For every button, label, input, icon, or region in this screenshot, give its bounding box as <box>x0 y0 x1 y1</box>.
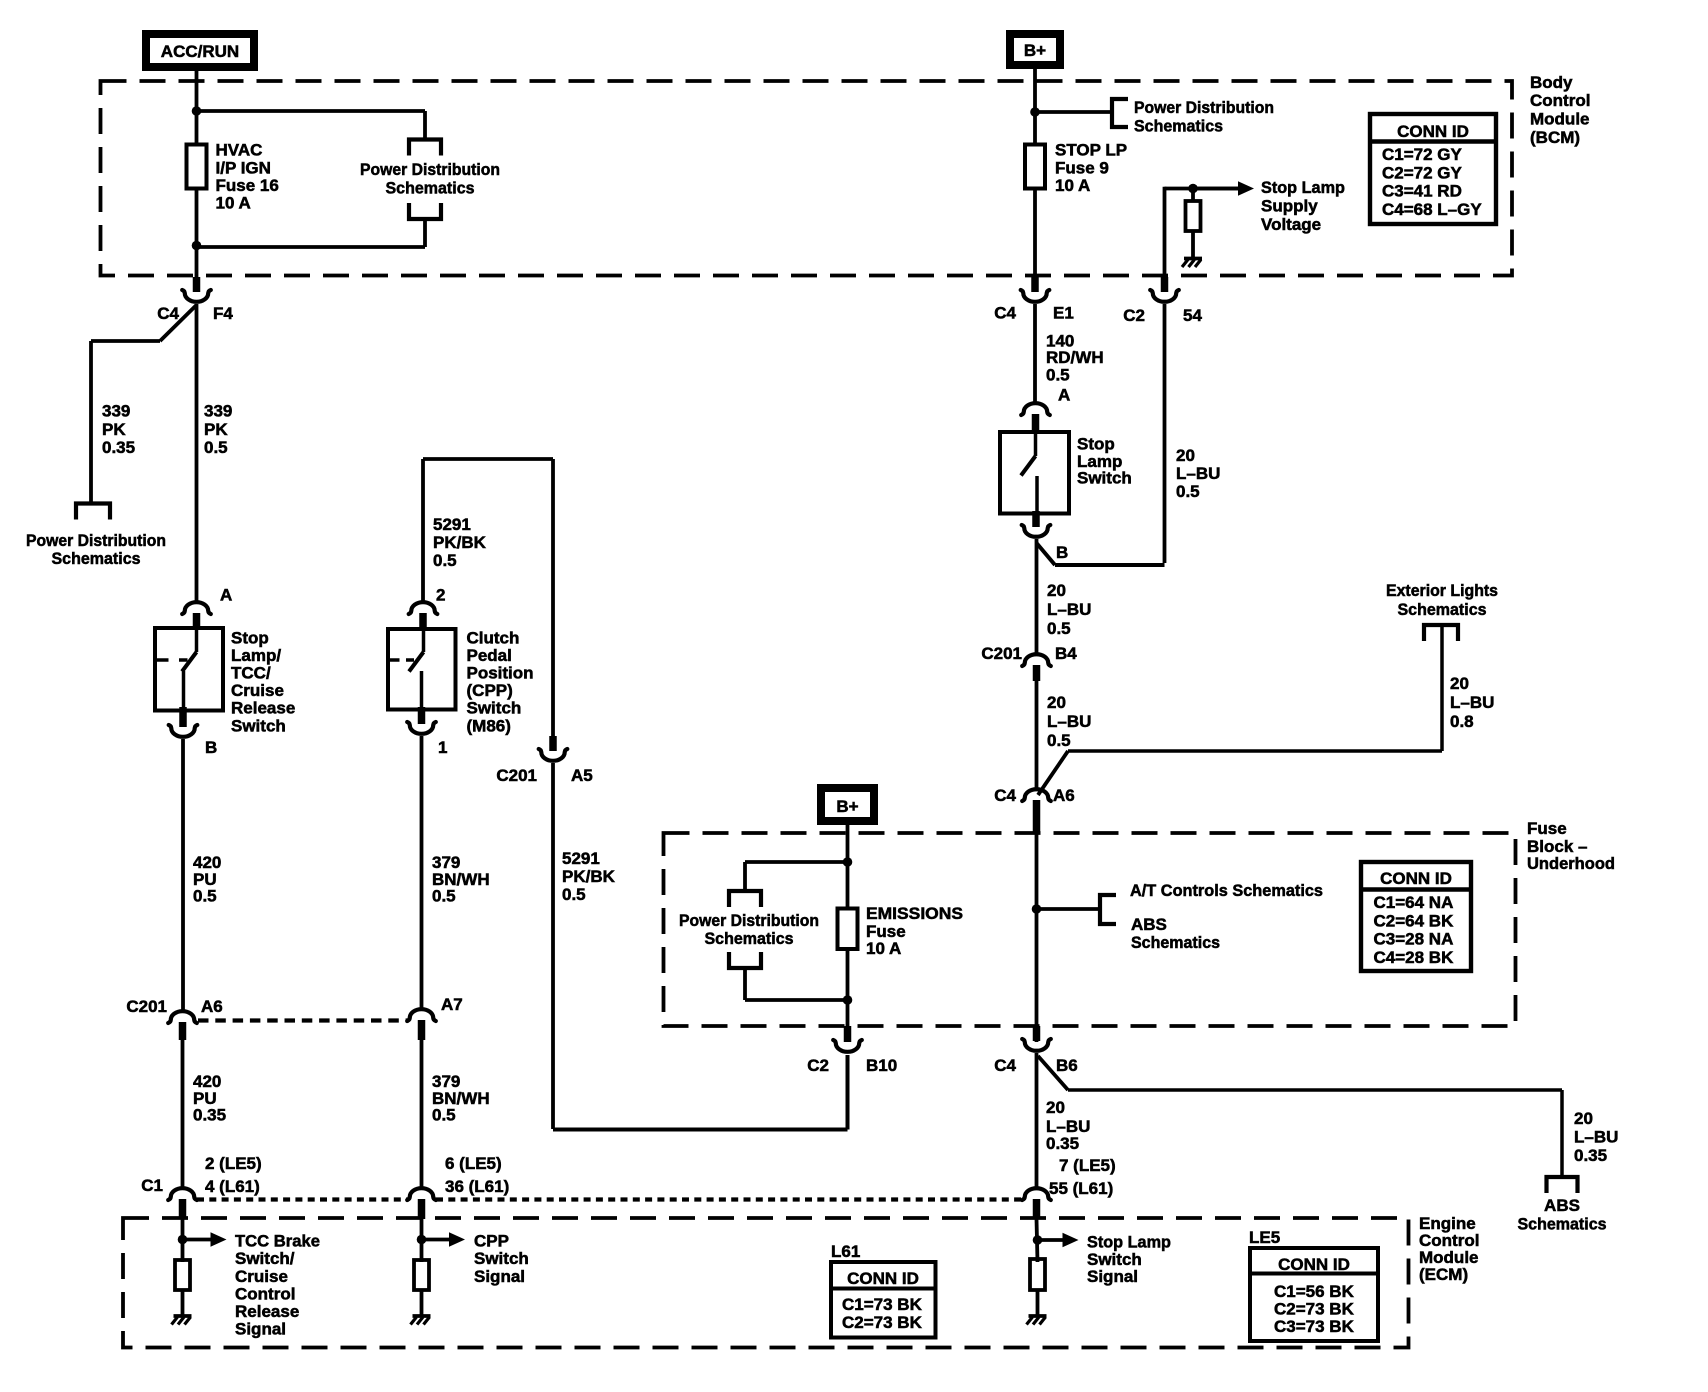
signal arrow TCC Brake Switch/Cruise Control Release Signal <box>183 1238 214 1242</box>
ECM connector face dotted line (left segment) <box>197 1197 409 1201</box>
svg-text:Control: Control <box>1530 91 1590 110</box>
wire branch to Exterior Lights Schematics <box>1038 751 1068 795</box>
connector pin B of stop lamp switch <box>1032 511 1040 527</box>
svg-text:(M86): (M86) <box>467 716 511 735</box>
svg-text:CONN ID: CONN ID <box>1397 122 1469 141</box>
svg-text:0.5: 0.5 <box>193 887 217 906</box>
svg-text:TCC/: TCC/ <box>231 664 271 683</box>
svg-text:C4: C4 <box>157 304 179 323</box>
svg-text:E1: E1 <box>1053 304 1074 323</box>
junction at A/T-ABS branch <box>1032 904 1042 914</box>
svg-text:0.8: 0.8 <box>1450 712 1474 731</box>
svg-text:Fuse 9: Fuse 9 <box>1055 158 1109 177</box>
connector C201 pin A6 <box>168 1011 197 1023</box>
svg-text:Signal: Signal <box>474 1267 525 1286</box>
svg-text:ABS: ABS <box>1544 1196 1580 1215</box>
svg-text:CPP: CPP <box>474 1232 509 1251</box>
svg-text:CONN ID: CONN ID <box>1278 1255 1350 1274</box>
svg-text:L–BU: L–BU <box>1176 464 1220 483</box>
svg-text:Power Distribution: Power Distribution <box>26 531 166 550</box>
svg-text:C1=73 BK: C1=73 BK <box>842 1295 923 1314</box>
svg-text:ACC/RUN: ACC/RUN <box>161 42 239 61</box>
connector pin 2 of CPP switch <box>409 602 438 614</box>
BCM internal resistor (stop lamp supply) <box>1191 189 1195 203</box>
power tag B+ (top right) <box>1010 34 1060 65</box>
svg-text:L–BU: L–BU <box>1450 693 1494 712</box>
svg-text:Supply: Supply <box>1261 196 1318 215</box>
svg-text:Module: Module <box>1530 110 1590 129</box>
off-page reference: Power Distribution Schematics (bottom left) <box>76 504 110 520</box>
svg-text:L–BU: L–BU <box>1047 600 1091 619</box>
svg-text:54: 54 <box>1183 306 1202 325</box>
wire B+ feed down to STOP LP fuse <box>1033 65 1037 145</box>
svg-text:Control: Control <box>235 1284 295 1303</box>
wire 5291 PK/BK 0.5 from C201 A5 down and over to fuse block C2 B10 <box>551 763 555 1129</box>
svg-text:20: 20 <box>1450 674 1469 693</box>
signal arrow Stop Lamp Switch Signal <box>1038 1238 1066 1242</box>
connector pin B of TCC switch <box>179 707 187 727</box>
wire into ECM from stop lamp pin <box>1037 1219 1038 1262</box>
svg-text:B4: B4 <box>1055 644 1077 663</box>
svg-text:Clutch: Clutch <box>467 628 520 647</box>
svg-text:STOP LP: STOP LP <box>1055 141 1127 160</box>
wire return from Power Distribution reference to EMISSIONS fuse output <box>743 968 747 1000</box>
connector C2 pin B10 (fuse block bottom) <box>844 1026 852 1042</box>
connector pin 1 of CPP switch <box>418 707 426 724</box>
svg-text:Switch: Switch <box>231 716 286 735</box>
junction at stop lamp supply resistor <box>1188 184 1198 194</box>
wire 339 PK 0.35 to Power Distribution Schematics <box>91 339 160 343</box>
power tag ACC/RUN <box>146 34 254 67</box>
svg-text:0.5: 0.5 <box>1047 731 1071 750</box>
junction at stop lamp switch signal <box>1033 1235 1043 1245</box>
svg-text:C1: C1 <box>141 1176 163 1195</box>
svg-text:Switch: Switch <box>474 1249 529 1268</box>
connector C201 pin A5 (5291 circuit) <box>549 736 557 751</box>
svg-text:Switch: Switch <box>1077 468 1132 487</box>
svg-text:5291: 5291 <box>562 849 600 868</box>
wire 20 L-BU inside fuse block from A6 to B6 <box>1035 833 1039 1042</box>
svg-text:B10: B10 <box>866 1056 897 1075</box>
svg-text:10 A: 10 A <box>216 194 251 213</box>
svg-text:36 (L61): 36 (L61) <box>445 1177 509 1196</box>
connector C4 pin B6 (fuse block bottom) <box>1033 1026 1041 1041</box>
svg-text:A6: A6 <box>201 997 223 1016</box>
svg-text:L–BU: L–BU <box>1047 712 1091 731</box>
svg-text:20: 20 <box>1176 446 1195 465</box>
wire into ECM from C1 <box>181 1219 185 1262</box>
table CONN ID (L61) <box>831 1262 936 1338</box>
svg-text:Power Distribution: Power Distribution <box>360 160 500 179</box>
wire 20 L-BU 0.5 from switch B down to C201 B4 <box>1035 539 1039 655</box>
fuse EMISSIONS Fuse 10 A <box>838 909 858 950</box>
connector ECM pin 6(LE5)/36(L61) <box>407 1188 436 1200</box>
off-page reference: Power Distribution Schematics (fuse block) <box>729 891 761 907</box>
table CONN ID (BCM) <box>1370 114 1496 224</box>
wire 379 BN/WH 0.5 from C201 A7 to ECM <box>420 1039 424 1189</box>
wire branch 20 L-BU 0.35 to ABS schematics (far right) <box>1038 1056 1068 1090</box>
svg-text:A6: A6 <box>1053 786 1075 805</box>
svg-text:Fuse: Fuse <box>1527 819 1567 838</box>
svg-text:4 (L61): 4 (L61) <box>205 1177 260 1196</box>
svg-text:Signal: Signal <box>1087 1267 1138 1286</box>
connector C4 pin E1 <box>1031 277 1039 292</box>
svg-text:Schematics: Schematics <box>1518 1215 1607 1234</box>
svg-text:10 A: 10 A <box>1055 176 1090 195</box>
connector C201 pin B4 <box>1022 654 1051 666</box>
svg-text:Underhood: Underhood <box>1527 854 1615 873</box>
switch S3 Stop Lamp Switch <box>1000 432 1069 514</box>
wire 420 PU 0.5 from TCC switch B to C201 A6 <box>181 739 185 1012</box>
svg-text:TCC Brake: TCC Brake <box>235 1232 320 1251</box>
svg-text:0.5: 0.5 <box>562 885 586 904</box>
svg-text:C1=64 NA: C1=64 NA <box>1374 893 1454 912</box>
connector pin A of stop lamp switch <box>1021 403 1050 415</box>
svg-text:PK: PK <box>102 420 126 439</box>
svg-text:20: 20 <box>1047 581 1066 600</box>
ground (ECM CPP input) <box>413 1314 431 1318</box>
svg-text:Pedal: Pedal <box>467 646 512 665</box>
fuse F9 STOP LP Fuse 9 10 A <box>1025 145 1045 189</box>
svg-text:C2=72 GY: C2=72 GY <box>1382 163 1463 182</box>
signal arrow Stop Lamp Supply Voltage <box>1193 187 1241 191</box>
wire branch to A/T Controls and ABS Schematics references <box>1037 907 1101 911</box>
svg-text:Fuse 16: Fuse 16 <box>216 176 279 195</box>
svg-text:A5: A5 <box>571 766 593 785</box>
svg-text:C2=73 BK: C2=73 BK <box>842 1313 923 1332</box>
module box: Body Control Module (BCM) dashed outline <box>101 81 1513 276</box>
junction above EMISSIONS fuse <box>843 857 853 867</box>
table CONN ID (fuse block) <box>1361 862 1471 971</box>
svg-text:C2: C2 <box>1123 306 1145 325</box>
svg-text:B6: B6 <box>1056 1056 1078 1075</box>
svg-text:(BCM): (BCM) <box>1530 128 1580 147</box>
svg-text:C2=64 BK: C2=64 BK <box>1374 911 1455 930</box>
svg-text:I/P IGN: I/P IGN <box>216 158 271 177</box>
svg-text:20: 20 <box>1046 1098 1065 1117</box>
svg-text:2: 2 <box>436 586 445 605</box>
svg-text:EMISSIONS: EMISSIONS <box>866 904 963 923</box>
wire into ECM from CPP pin <box>420 1219 424 1262</box>
wire 5291 PK/BK top run from CPP pin 2 up and over <box>421 459 425 603</box>
svg-text:L–BU: L–BU <box>1574 1128 1618 1147</box>
svg-text:10 A: 10 A <box>866 939 901 958</box>
svg-text:C201: C201 <box>126 997 167 1016</box>
connector C4 pin A6 (fuse block top) <box>1022 789 1051 801</box>
svg-text:0.35: 0.35 <box>1574 1146 1607 1165</box>
wire 140 RD/WH 0.5 from E1 to stop lamp switch pin A <box>1033 304 1037 404</box>
svg-text:CONN ID: CONN ID <box>847 1269 919 1288</box>
connector C201 pin A7 <box>407 1009 436 1021</box>
svg-text:C4=68 L–GY: C4=68 L–GY <box>1382 200 1482 219</box>
svg-text:Cruise: Cruise <box>235 1267 288 1286</box>
svg-text:0.35: 0.35 <box>1046 1134 1079 1153</box>
wire HVAC fuse output to connector C4 F4 <box>195 189 199 280</box>
svg-text:339: 339 <box>204 402 232 421</box>
svg-text:C3=28 NA: C3=28 NA <box>1374 930 1454 949</box>
wire ACC/RUN feed down to HVAC fuse <box>195 71 199 145</box>
svg-text:55 (L61): 55 (L61) <box>1049 1179 1113 1198</box>
table CONN ID (LE5) <box>1250 1248 1378 1341</box>
svg-text:Power Distribution: Power Distribution <box>1134 98 1274 117</box>
svg-text:(ECM): (ECM) <box>1419 1265 1468 1284</box>
svg-text:Exterior Lights: Exterior Lights <box>1386 581 1498 600</box>
switch S1 Stop Lamp/TCC/Cruise Release Switch <box>155 628 223 711</box>
module box: Fuse Block - Underhood dashed outline <box>664 833 1516 1026</box>
wire 20 L-BU 0.5 from C201 B4 to C4 A6 <box>1035 681 1039 790</box>
svg-text:RD/WH: RD/WH <box>1046 348 1104 367</box>
junction above STOP LP fuse <box>1030 107 1040 117</box>
wire branch to Power Distribution reference (inside BCM) <box>197 109 426 113</box>
connector C201 mating face dashed line <box>198 1018 409 1022</box>
svg-text:7 (LE5): 7 (LE5) <box>1059 1156 1116 1175</box>
svg-text:Signal: Signal <box>235 1320 286 1339</box>
svg-text:LE5: LE5 <box>1249 1228 1280 1247</box>
wire branch to Power Distribution reference (BCM right) <box>1035 110 1112 114</box>
svg-text:0.5: 0.5 <box>432 1106 456 1125</box>
junction above HVAC fuse <box>192 106 202 116</box>
switch S2 Clutch Pedal Position (CPP) Switch (M86) <box>388 629 456 710</box>
connector pin A of stop lamp/TCC/cruise release switch <box>182 602 211 614</box>
svg-text:6 (LE5): 6 (LE5) <box>445 1154 502 1173</box>
svg-text:F4: F4 <box>213 304 233 323</box>
signal arrow CPP Switch Signal <box>422 1238 453 1242</box>
svg-text:Stop: Stop <box>231 628 269 647</box>
wire resistor to ground (TCC input) <box>181 1290 185 1316</box>
wire resistor to ground (CPP input) <box>420 1290 424 1316</box>
svg-text:A7: A7 <box>441 995 463 1014</box>
svg-text:C3=73 BK: C3=73 BK <box>1274 1317 1355 1336</box>
svg-text:L61: L61 <box>831 1242 860 1261</box>
wire resistor to ground (BCM) <box>1191 231 1195 258</box>
svg-text:0.5: 0.5 <box>1046 366 1070 385</box>
svg-text:C4=28 BK: C4=28 BK <box>1374 948 1455 967</box>
svg-text:ABS: ABS <box>1131 915 1167 934</box>
wire resistor to ground (stop lamp input) <box>1036 1290 1040 1316</box>
svg-text:Schematics: Schematics <box>386 179 475 198</box>
svg-text:Schematics: Schematics <box>1398 600 1487 619</box>
svg-text:0.5: 0.5 <box>1047 619 1071 638</box>
wire 379 BN/WH 0.5 from CPP pin 1 to C201 A7 <box>420 736 424 1010</box>
wire 339 PK 0.5 from F4 down to TCC switch pin A <box>195 304 199 603</box>
svg-text:0.5: 0.5 <box>432 887 456 906</box>
svg-text:C2: C2 <box>807 1056 829 1075</box>
wire branch to Power Distribution reference (fuse block) <box>745 860 848 864</box>
ECM internal load resistor (stop lamp input) <box>1030 1259 1045 1290</box>
svg-text:20: 20 <box>1047 693 1066 712</box>
svg-text:Body: Body <box>1530 73 1573 92</box>
svg-text:Stop Lamp: Stop Lamp <box>1087 1233 1171 1252</box>
svg-text:PK: PK <box>204 420 228 439</box>
svg-text:HVAC: HVAC <box>216 141 263 160</box>
svg-text:Schematics: Schematics <box>1131 933 1220 952</box>
wire B+ feed into fuse block <box>846 821 850 907</box>
wire STOP LP fuse output to C4 E1 <box>1033 189 1037 280</box>
wire 20 L-BU 0.5 from 54 down to stop lamp switch B <box>1163 304 1167 563</box>
connector C4 pin F4 (in-line) <box>193 277 201 292</box>
svg-text:(CPP): (CPP) <box>467 681 513 700</box>
svg-text:B: B <box>1056 543 1068 562</box>
junction at CPP switch signal <box>417 1235 427 1245</box>
svg-text:A/T Controls Schematics: A/T Controls Schematics <box>1130 881 1323 900</box>
svg-text:Stop: Stop <box>1077 434 1115 453</box>
svg-text:Cruise: Cruise <box>231 681 284 700</box>
ground (ECM stop lamp input) <box>1029 1314 1047 1318</box>
wire 20 L-BU 0.35 from B6 to ECM stop lamp input <box>1035 1053 1039 1189</box>
svg-text:C201: C201 <box>496 766 537 785</box>
module box: Engine Control Module (ECM) dashed outline <box>123 1218 1409 1348</box>
svg-text:C1=56 BK: C1=56 BK <box>1274 1282 1355 1301</box>
svg-text:C4: C4 <box>994 304 1016 323</box>
connector ECM C1 pin 2(LE5)/4(L61) <box>168 1188 197 1200</box>
power tag B+ (fuse block) <box>821 788 874 821</box>
svg-text:Release: Release <box>235 1302 299 1321</box>
svg-text:C3=41 RD: C3=41 RD <box>1382 182 1462 201</box>
svg-text:CONN ID: CONN ID <box>1380 869 1452 888</box>
off-page reference fork: A/T Controls Schematics / ABS Schematics <box>1100 895 1116 924</box>
off-page reference: Exterior Lights Schematics <box>1424 625 1458 641</box>
svg-text:0.5: 0.5 <box>433 551 457 570</box>
wire branch diagonal from F4 to 339 PK 0.35 drop <box>160 305 197 341</box>
svg-text:Release: Release <box>231 699 295 718</box>
wire return from Power Distribution reference to main feed <box>423 219 427 247</box>
svg-text:C1=72 GY: C1=72 GY <box>1382 145 1463 164</box>
svg-text:Switch/: Switch/ <box>235 1249 295 1268</box>
svg-text:Schematics: Schematics <box>1134 116 1223 135</box>
svg-text:0.5: 0.5 <box>1176 482 1200 501</box>
off-page reference: Power Distribution Schematics (BCM left) <box>409 140 441 156</box>
connector ECM pin 7(LE5)/55(L61) <box>1022 1188 1051 1200</box>
svg-text:Voltage: Voltage <box>1261 215 1321 234</box>
ground (BCM stop lamp supply) <box>1184 257 1202 261</box>
connector C2 pin 54 <box>1161 277 1169 292</box>
svg-text:0.35: 0.35 <box>193 1106 226 1125</box>
junction below HVAC fuse <box>192 241 202 251</box>
svg-text:5291: 5291 <box>433 515 471 534</box>
svg-text:Schematics: Schematics <box>705 929 794 948</box>
svg-text:0.35: 0.35 <box>102 438 135 457</box>
ground (ECM TCC input) <box>174 1314 192 1318</box>
svg-text:C4: C4 <box>994 1056 1016 1075</box>
junction below EMISSIONS fuse <box>843 995 853 1005</box>
svg-text:1: 1 <box>438 738 447 757</box>
svg-text:C2=73 BK: C2=73 BK <box>1274 1300 1355 1319</box>
svg-text:0.5: 0.5 <box>204 438 228 457</box>
svg-text:A: A <box>1058 386 1070 405</box>
ECM internal load resistor (TCC input) <box>175 1260 190 1290</box>
ECM internal load resistor (CPP input) <box>414 1260 429 1290</box>
off-page reference: ABS Schematics (bottom right) <box>1547 1177 1578 1193</box>
svg-text:Switch: Switch <box>467 699 522 718</box>
svg-text:20: 20 <box>1574 1109 1593 1128</box>
svg-text:C4: C4 <box>994 786 1016 805</box>
svg-text:2 (LE5): 2 (LE5) <box>205 1154 262 1173</box>
wire stop lamp supply voltage inside BCM <box>1163 187 1167 279</box>
fuse F16 HVAC I/P IGN Fuse 16 10 A <box>187 145 207 189</box>
svg-text:B: B <box>205 738 217 757</box>
wire EMISSIONS fuse output to C2 B10 <box>846 949 850 1028</box>
svg-text:B+: B+ <box>836 797 858 816</box>
svg-text:B+: B+ <box>1024 41 1046 60</box>
svg-text:C201: C201 <box>981 644 1022 663</box>
wire 420 PU 0.35 from C201 A6 to ECM C1 <box>181 1039 185 1189</box>
svg-text:Power Distribution: Power Distribution <box>679 911 819 930</box>
svg-text:Lamp/: Lamp/ <box>231 646 281 665</box>
svg-text:Stop Lamp: Stop Lamp <box>1261 178 1345 197</box>
ECM connector face dotted line (right segment) <box>436 1197 1023 1201</box>
junction at TCC brake switch signal <box>178 1235 188 1245</box>
svg-text:339: 339 <box>102 402 130 421</box>
off-page reference fork: Power Distribution Schematics (BCM right) <box>1112 99 1128 127</box>
svg-text:Position: Position <box>467 664 534 683</box>
svg-text:A: A <box>220 586 232 605</box>
svg-text:PK/BK: PK/BK <box>433 533 487 552</box>
svg-text:PK/BK: PK/BK <box>562 867 616 886</box>
svg-text:Schematics: Schematics <box>52 549 141 568</box>
